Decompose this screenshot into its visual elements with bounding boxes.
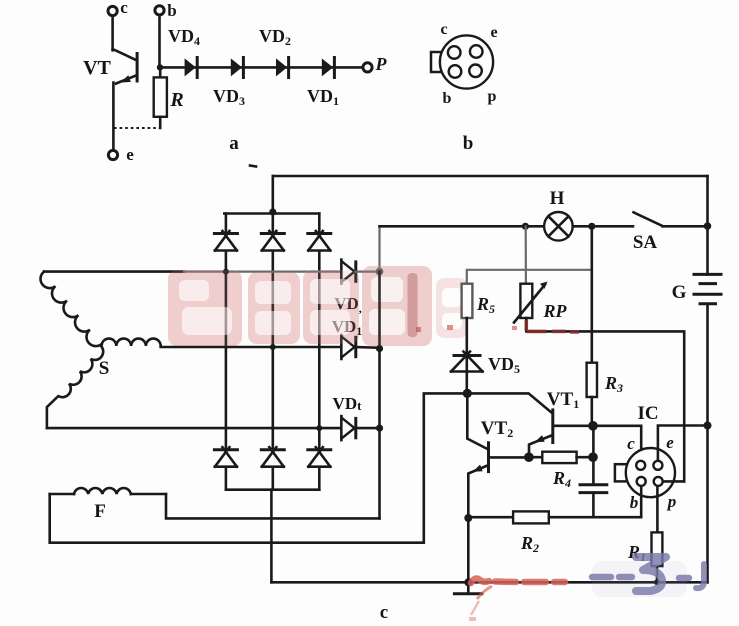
node R4 right <box>588 452 598 462</box>
node phase3 column3 <box>316 425 322 431</box>
wire right bus lower <box>706 304 709 583</box>
wire IC e to right bus <box>658 426 708 466</box>
diode bridge top 3 <box>306 231 332 251</box>
svg-text:b: b <box>463 133 474 154</box>
diode bridge bottom 3 <box>306 447 332 467</box>
diode bridge bottom 2 <box>260 447 286 467</box>
stator winding S phase 2 <box>161 346 342 349</box>
wire R5 down to zener <box>465 318 468 393</box>
svg-text:IC: IC <box>637 403 658 424</box>
connector IC tab <box>615 464 627 481</box>
node base junction <box>157 64 163 70</box>
wire lamp node down to RP <box>525 226 527 283</box>
terminal e <box>108 145 134 164</box>
pin e (connector b) <box>470 45 483 58</box>
stray mark <box>250 166 256 167</box>
svg-text:R3: R3 <box>604 373 623 395</box>
wire lamp to switch <box>573 225 633 228</box>
diode trio VD lower <box>332 317 363 359</box>
svg-text:p: p <box>666 492 677 511</box>
pin c (IC) <box>636 461 645 470</box>
svg-text:c: c <box>120 0 128 17</box>
transistor VT1 <box>529 389 593 457</box>
svg-text:H: H <box>550 188 565 209</box>
wire R3 top <box>590 226 593 362</box>
svg-text:RP: RP <box>542 301 567 321</box>
wire emitter node to ground bus <box>467 518 470 582</box>
connector b body <box>440 35 493 88</box>
diode trio VD upper <box>334 260 362 315</box>
diode bridge top 1 <box>213 231 239 251</box>
wire RP bottom to IC p <box>526 318 684 481</box>
node phase2 column2 <box>270 344 276 350</box>
pin b (connector b) <box>449 65 462 78</box>
node diode trio 3 <box>376 425 383 432</box>
diode bridge bottom 1 <box>213 447 239 467</box>
resistor R5 <box>462 284 495 318</box>
node diode trio 1 <box>376 268 384 276</box>
ground <box>453 582 483 594</box>
wire bottom bus <box>271 581 707 584</box>
svg-text:VD5: VD5 <box>488 354 520 376</box>
terminal c <box>108 0 128 50</box>
node phase1 column1 <box>223 269 229 275</box>
wire F right to VDt node <box>166 494 380 518</box>
stator coil 3 <box>47 347 103 429</box>
wire VT2 emitter node <box>464 514 472 522</box>
transistor VT <box>83 49 137 150</box>
wire VD upper to node <box>356 271 380 273</box>
wire VD lower to node <box>356 346 380 349</box>
svg-text:F: F <box>94 501 106 522</box>
svg-text:a: a <box>229 133 239 154</box>
svg-text:VT1: VT1 <box>547 389 579 411</box>
capacitor C <box>579 485 609 517</box>
svg-text:SA: SA <box>633 232 658 253</box>
stator winding S phase 1 <box>44 270 184 273</box>
terminal P <box>363 54 388 74</box>
wire node to VT1 collector <box>467 393 551 412</box>
switch SA <box>633 212 708 253</box>
connector IC body <box>626 448 675 497</box>
stator coil 1 <box>40 272 101 347</box>
wire rectifier column 2 <box>271 214 274 490</box>
svg-text:b: b <box>443 90 452 107</box>
wire rectifier bottom header <box>226 488 319 491</box>
connector b key tab <box>431 52 447 72</box>
wire rectifier top header <box>224 212 319 215</box>
svg-text:R: R <box>169 89 183 111</box>
svg-text:R2: R2 <box>520 533 539 555</box>
node ground bus <box>464 578 472 586</box>
svg-text:c: c <box>380 602 388 623</box>
wire rectifier column 1 <box>225 214 228 490</box>
diode VD4 <box>168 26 200 79</box>
diode bridge top 2 <box>260 231 286 251</box>
diode VD3 <box>213 56 245 108</box>
watermark red overlay on RP wire <box>526 320 579 332</box>
wire F left down and to regulator <box>50 393 467 542</box>
resistor R1 <box>627 532 662 585</box>
node regulator input <box>463 389 472 398</box>
node right bus e <box>704 422 712 430</box>
svg-text:R4: R4 <box>552 468 571 490</box>
pin p (connector b) <box>469 65 482 78</box>
node diode trio 2 <box>376 345 383 352</box>
svg-text:p: p <box>488 88 497 105</box>
watermark wash overlay <box>168 266 432 346</box>
pin c (connector b) <box>448 46 461 59</box>
wire rectifier column 3 <box>318 214 321 490</box>
resistor R <box>154 67 184 128</box>
stator winding S phase 3 <box>47 427 342 430</box>
node switch right <box>704 222 712 230</box>
svg-text:VDt: VDt <box>333 394 363 413</box>
pin b (IC) <box>637 477 646 486</box>
wire IC p down to R1 <box>656 486 659 533</box>
resistor R4 <box>529 452 593 490</box>
svg-text:e: e <box>126 145 134 164</box>
diode VD1 <box>307 56 339 108</box>
svg-text:b: b <box>167 1 176 20</box>
wire rectifier minus drop <box>270 490 273 583</box>
node lamp left <box>522 223 529 230</box>
svg-text:G: G <box>672 282 687 303</box>
wire base node to IC c <box>593 426 641 462</box>
wire rectifier plus drop <box>271 176 274 214</box>
diode VDt <box>333 394 363 440</box>
svg-text:P: P <box>375 54 388 74</box>
wire lamp branch left <box>380 225 545 228</box>
terminal b <box>155 1 177 67</box>
svg-text:VD1: VD1 <box>307 86 339 108</box>
svg-text:VT: VT <box>83 57 111 79</box>
resistor R2 <box>468 511 641 555</box>
wire dotted emitter to R <box>114 127 160 129</box>
wire IC p right <box>658 480 684 483</box>
svg-text:b: b <box>630 493 639 512</box>
wire IC b down to R2 line <box>640 486 643 518</box>
pin p (IC) <box>654 477 663 486</box>
potentiometer RP <box>514 282 567 323</box>
svg-text:VT2: VT2 <box>481 418 513 440</box>
wire R3 bottom <box>590 397 593 426</box>
transistor VT2 <box>467 393 529 518</box>
lamp H <box>544 188 573 241</box>
svg-text:R5: R5 <box>476 294 495 316</box>
svg-text:VD4: VD4 <box>168 26 200 48</box>
svg-text:c: c <box>440 21 447 38</box>
svg-text:VD3: VD3 <box>213 86 245 108</box>
wire top bus <box>273 175 708 178</box>
svg-text:e: e <box>666 433 674 452</box>
svg-text:e: e <box>490 24 497 41</box>
zener diode VD5 <box>451 352 520 376</box>
battery G <box>672 274 723 303</box>
node VT1 base R3 <box>588 421 598 431</box>
svg-text:VD2: VD2 <box>259 26 291 48</box>
wire trio vertical bus <box>378 272 381 519</box>
stator coil 2 <box>102 339 161 346</box>
node lamp right <box>588 223 595 230</box>
wire trio node column up to lamp <box>378 226 380 271</box>
resistor R3 <box>587 363 623 397</box>
wire R4 node down to capacitor <box>592 426 595 484</box>
node rectifier plus <box>269 208 276 215</box>
wire divider top gray <box>467 270 592 284</box>
pin e (IC) <box>653 461 662 470</box>
node VT2 base VT1 emitter <box>524 452 534 462</box>
diode VD2 <box>259 26 291 79</box>
wire base to P <box>160 66 363 69</box>
wire right bus upper <box>706 176 709 274</box>
svg-text:c: c <box>627 434 635 453</box>
svg-text:S: S <box>99 358 110 379</box>
field winding F <box>50 488 166 522</box>
wire VDt to node <box>356 427 380 430</box>
